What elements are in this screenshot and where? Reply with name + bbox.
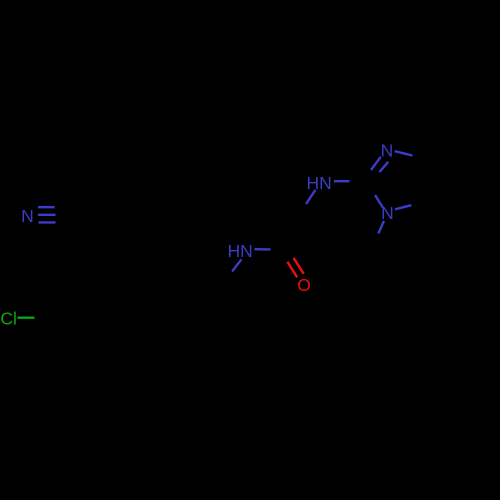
C=O main line (carbon half): [288, 249, 294, 258]
C2=N3 inner line (carbon half): [371, 172, 380, 184]
benzo ring bond 2: [461, 139, 498, 161]
bond ring A - chain CH2 a: [187, 216, 209, 248]
C=O second line (carbon half): [282, 253, 287, 262]
bond amide N - carbonyl C (blue half): [255, 248, 271, 251]
benzo ring bond 5: [424, 203, 461, 225]
bond N1 - methyl (blue half): [378, 221, 384, 234]
ring B bond 3: [109, 284, 129, 318]
svg-text:N: N: [381, 203, 394, 223]
ring B bond 6: [50, 318, 70, 352]
C2=N3 outer line (blue half): [371, 157, 381, 170]
nitrile triple bond line 3 (carbon half): [56, 221, 67, 223]
bond N1 - C7a (blue half): [395, 205, 412, 209]
svg-text:N: N: [381, 140, 394, 160]
C2=N3 outer line (carbon half): [365, 170, 371, 181]
svg-text:HN: HN: [228, 241, 253, 261]
bond alpha CH2 - amino N (blue half): [306, 190, 316, 204]
bond chain CH2 a - CH2 b: [209, 248, 222, 281]
ring B bond 2: [70, 283, 109, 285]
bond amino N - C2 (blue half): [334, 180, 350, 182]
bond N1 - methyl (carbon half): [371, 234, 378, 250]
bond carbonyl C - alpha CH2: [288, 214, 300, 249]
C=O main line (red half): [294, 258, 304, 274]
C2=N3 inner line (blue half): [379, 162, 388, 172]
bond N3 - C3a (carbon half): [413, 156, 425, 160]
bond C2 - N1 (blue half): [375, 195, 383, 208]
ring A bond 4: [168, 182, 188, 216]
ring B bond 5: [70, 350, 109, 352]
benzo ring bond 6: [423, 160, 425, 203]
bond amide N - carbonyl C (carbon half): [271, 248, 289, 251]
bond N3 - C3a (blue half): [395, 151, 413, 155]
ring B bond 4: [109, 318, 129, 352]
bond Cl - ring B (green half): [18, 317, 35, 319]
ring B bond 1: [50, 284, 70, 318]
bond alpha CH2 - amino N (carbon half): [300, 204, 306, 214]
bond Cl - ring B (carbon half): [35, 316, 51, 319]
bond N1 - C7a (carbon half): [412, 203, 425, 205]
benzo ring bond 3: [497, 160, 499, 203]
nitrile triple bond line 1 (carbon half): [55, 206, 66, 209]
bond amide N - CH2 (carbon half): [222, 272, 232, 282]
svg-text:O: O: [297, 275, 311, 295]
ring A bond 6: [109, 182, 129, 216]
bond amide N - CH2 (blue half): [232, 259, 242, 271]
nitrile triple bond line 2 (carbon half): [56, 214, 73, 217]
bond ring A - ring B (biphenyl link): [109, 250, 129, 284]
ring A bond 5: [129, 181, 168, 183]
svg-text:N: N: [21, 206, 34, 226]
ring A bond 1: [109, 216, 129, 250]
ring A bond 3: [168, 216, 188, 250]
bond amino N - C2 (carbon half): [350, 180, 366, 183]
ring A bond 2: [129, 248, 168, 250]
svg-text:HN: HN: [307, 173, 332, 193]
C=O second line (red half): [287, 262, 297, 278]
benzo ring bond 4: [461, 203, 498, 225]
nitrile triple bond line 3 (blue half): [39, 221, 56, 223]
bond nitrile C - ring A C1: [72, 214, 109, 217]
nitrile triple bond line 1 (blue half): [38, 206, 55, 208]
benzo ring bond 1: [424, 139, 461, 161]
bond C2 - N1 (carbon half): [365, 181, 375, 195]
svg-text:Cl: Cl: [0, 308, 17, 328]
nitrile triple bond line 2 (blue half): [38, 214, 56, 216]
